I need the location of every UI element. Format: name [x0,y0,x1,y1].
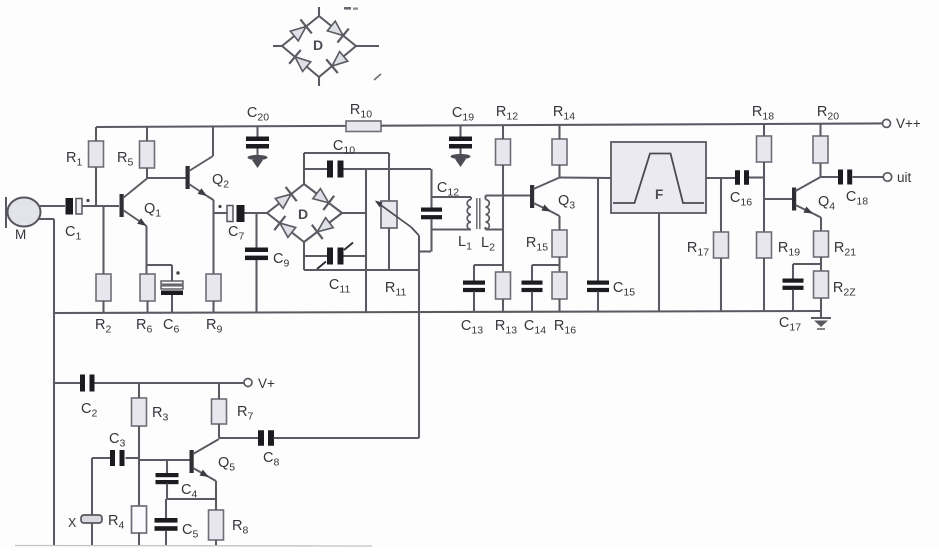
capacitor C15 [587,281,609,293]
capacitor C3 [110,450,125,466]
wire (C6 bottom lead) [171,295,173,313]
diode bridge D diode (top-left) [274,187,297,211]
wire (emitter node to C7) [214,212,228,214]
wire (mic lower lead) [38,218,54,220]
wire (Q2 collector to rail) [212,126,214,156]
wire (Q3 collector) [534,178,560,190]
transistor Q4 [792,188,796,211]
capacitor C2 [80,375,95,392]
wire (C5 top lead) [165,499,167,518]
resistor R15 [552,230,567,257]
capacitor C8 [258,430,274,446]
label L1 [458,234,472,253]
capacitor C19 [449,137,472,149]
wire (V++ rail, left of R10) [96,126,346,127]
wire (R1 bottom lead) [95,167,97,206]
label C10 [333,138,355,157]
wire (C17 bottom lead) [792,290,794,312]
wire (bridge top rail to R11) [304,152,389,154]
ground (C20) [248,149,268,169]
label C2 [81,401,97,420]
capacitor C5 [155,518,178,531]
wire (right vertex to x366) [342,212,366,214]
transistor Q3 [530,185,534,208]
label uit [897,170,912,185]
label R22 [833,280,856,299]
wire (tank bottom lead) [432,228,472,230]
wire (R6/C6 link) [148,265,173,281]
wire (R11 bottom lead) [388,228,390,270]
filter block F [611,142,706,213]
label V++ [896,116,921,131]
wire (C12 bottom jog) [419,250,431,252]
label R14 [553,104,575,123]
wire (C18 to uit) [853,176,884,178]
label C15 [613,280,635,299]
svg-text:D: D [298,206,308,222]
wire (C20 top lead) [256,126,258,136]
wire (R8 bottom lead) [215,540,217,546]
wire (C1 to Q1 base) [82,205,119,207]
label R9 [206,317,222,336]
wire (top bridge left lead) [273,45,282,47]
label C11 [329,277,351,296]
wire (C12 bottom lead) [430,219,432,252]
label R19 [778,240,800,259]
label R17 [687,240,709,259]
wire (top bridge bottom lead) [318,77,320,86]
wire (C19 top lead) [459,125,461,136]
resistor R12 [496,139,511,165]
wire (Q3 collector line to F) [560,176,612,179]
label C5 [182,522,198,541]
emitter arrow Q1 [123,210,147,226]
capacitor C9 [245,248,268,261]
wire (R19 bottom lead) [763,258,765,311]
diode bridge D diode (bottom-right) [312,215,335,239]
label Q4 [818,194,835,213]
wire (V++ rail, right of R10) [381,123,882,125]
label R3 [152,405,168,424]
wire (R2 top lead) [102,206,104,274]
label R18 [752,104,774,123]
diode bridge D2 label [313,37,323,53]
wire (C15 top lead) [597,178,599,281]
wire (faint bottom edge) [15,545,372,548]
wire (R18-R19 column) [763,162,765,232]
resistor R1 [89,141,104,167]
emitter arrow Q2 [189,184,207,196]
capacitor C6 (electrolytic) [161,271,183,295]
wire (bridge bottom line) [304,269,419,271]
label Q2 [212,172,229,191]
wire (C13 top jog) [474,265,503,281]
wire (ground rail) [54,311,821,313]
svg-text:V+: V+ [258,376,275,391]
resistor R11 (adjustable) [381,201,397,228]
label R4 [108,513,124,532]
wire (R4 bottom lead) [138,533,140,546]
wire (bridge top stub) [303,153,305,184]
resistor R6 [140,274,155,301]
resistor R5 [140,141,155,168]
wire (base line to Q5) [139,459,190,461]
wire (bridge bottom stub) [303,242,305,270]
wire (Q5 emitter down) [209,477,216,510]
wire (L2 top to Q3 base) [486,196,531,200]
wire (C9 bottom lead) [255,260,257,312]
label R15 [526,235,548,254]
wire (C9 top lead) [255,213,257,248]
wire (R3 bottom lead) [138,426,140,506]
wire (R6 bottom lead) [146,301,148,313]
microphone M [6,197,41,228]
wire (C17 jog) [793,264,821,279]
label R1 [66,150,82,169]
svg-text:D: D [313,37,323,53]
label Q3 [558,193,575,212]
label V+ [258,376,275,391]
wire (C14 bottom lead) [531,292,533,312]
diode bridge D label [298,206,308,222]
wire (R21-R22 link) [820,257,822,271]
wire (R11 top lead) [388,153,390,201]
capacitor C20 [246,137,269,149]
wire (R5 top lead) [146,127,148,141]
svg-text:F: F [655,187,663,202]
svg-text:uit: uit [897,170,912,185]
label C18 [846,189,868,208]
resistor R19 [757,232,772,258]
wire (R17 bottom lead) [720,258,722,311]
emitter arrow Q4 [796,205,814,214]
resistor R20 [813,136,828,163]
wire (Q2 collector) [189,156,213,171]
svg-text:V++: V++ [896,116,921,131]
capacitor C11 (trimmer) [317,243,353,270]
capacitor C1 [66,198,90,215]
diode bridge D diode (bottom-left) [274,216,297,240]
label R8 [232,518,248,537]
inductor L1 [467,200,471,230]
wire (Q4 emitter to R21) [813,214,821,232]
label C8 [263,450,279,469]
label C12 [437,180,459,199]
wire (R12 top lead) [502,125,504,139]
transistor Q5 [190,450,194,473]
wire (Q1 collector) [123,179,147,199]
label C13 [461,318,483,337]
wire (C10 branch) [304,168,431,170]
wire (Q1 emitter to R6) [145,226,147,274]
resistor R9 [206,274,221,301]
ground [811,318,831,329]
wire (feedback column x419) [418,236,420,439]
diode bridge D2 diode (bottom-left) [289,50,312,74]
diode bridge D2 wire [282,16,356,77]
label R21 [834,240,856,259]
wire (collector node) [821,176,839,178]
label C9 [273,251,289,270]
diode bridge D diode (top-right) [311,186,334,210]
terminal V++ [883,119,891,127]
wire (Q1 collector to Q2 base) [147,177,186,179]
label Q5 [218,455,235,474]
wire (R20 bottom lead) [819,163,821,177]
label F [655,187,663,202]
wire (R20 top lead) [819,124,821,136]
crystal X [81,515,102,523]
diode bridge D2 diode (bottom-right) [326,49,349,73]
wire (R16 bottom lead) [558,299,560,312]
resistor R7 [212,399,227,424]
wire (L2 bottom lead) [486,227,504,230]
resistor R16 [552,272,567,299]
resistor R22 [814,271,829,298]
svg-text:X: X [68,516,77,530]
stray scan mark (top right) [344,7,358,10]
label C6 [163,317,179,336]
transistor Q2 [186,166,190,189]
wire (R12-R13 column) [502,165,504,272]
label R11 [385,280,407,299]
svg-text:M: M [15,227,26,242]
wire (R15-R16 column) [558,257,560,272]
resistor R2 [96,274,111,301]
inductor L2 [486,200,490,230]
diode bridge D2 diode (top-right) [326,19,349,43]
label C16 [730,190,752,209]
emitter arrow Q5 [193,468,209,477]
label C17 [779,315,801,334]
label R16 [554,318,576,337]
label C20 [247,105,269,124]
label R7 [237,404,253,423]
label C4 [181,482,197,501]
wire (left vertical bus) [53,219,55,546]
wire (Q5 collector) [193,439,219,454]
label R6 [136,317,152,336]
wire (Q4 collector) [796,177,821,191]
stray scan mark (right of bridge) [374,74,381,80]
wire (ground column x366) [365,169,367,312]
ground (C19) [451,149,471,168]
terminal uit [883,173,891,181]
label C19 [452,105,474,124]
transistor Q1 [120,194,124,217]
wire (C13 bottom lead) [473,292,475,312]
wire (C12 top lead) [430,169,432,208]
label C14 [524,318,546,337]
capacitor C13 [463,281,485,293]
wire (crystal column) [91,458,93,515]
wiper arrow R11 [375,201,419,236]
capacitor C17 [783,279,804,290]
wire (C3 branch) [92,457,140,459]
label R13 [495,318,517,337]
wire (R13 bottom lead) [502,299,504,312]
label R2 [95,317,111,336]
wire (Q3 emitter to R15) [551,212,560,231]
label Q1 [144,201,161,220]
diode bridge D wire [267,184,342,242]
transformer core [477,198,480,229]
wire (R14 top lead) [558,125,560,139]
wire (R17 column) [720,178,722,232]
label R20 [817,104,839,123]
label R10 [350,102,372,121]
label L2 [481,235,495,254]
capacitor C10 [327,161,344,178]
emitter arrow Q3 [534,203,552,212]
capacitor C14 [522,281,543,293]
label R12 [496,104,518,123]
capacitor C7 [218,205,244,222]
wire (top bridge right lead) [356,45,379,47]
wire (collector to C8) [219,437,258,439]
wire (R7 bottom lead) [218,424,220,438]
capacitor C12 [421,208,442,220]
wire (V+ line) [54,382,244,384]
wire (R1 top lead) [95,127,97,141]
wire (Q4 base) [764,198,792,200]
wire (C4/emitter link) [167,498,216,500]
resistor R18 [757,136,772,162]
resistor R3 [132,398,147,426]
wire (Q2 emitter down) [207,196,214,274]
wire (R14 bottom lead) [558,165,560,178]
label C7 [228,224,244,243]
resistor R17 [714,232,729,258]
resistor R10 [346,121,381,132]
capacitor C4 [156,473,179,484]
label C1 [65,224,81,243]
capacitor C16 [735,170,749,185]
resistor R13 [496,272,511,299]
label R5 [117,150,133,169]
wire (tank top lead) [432,197,472,200]
wire (R2 bottom lead) [102,301,104,313]
wire (R22 bottom lead) [820,298,822,318]
wire (F output) [706,177,735,179]
wire (C16 to base column) [749,176,764,178]
wire (top bridge top lead) [318,7,320,16]
terminal V+ [244,379,252,387]
label C3 [109,431,125,450]
wire (R7 top lead) [218,383,220,399]
resistor R4 [132,506,147,533]
wire (C5 bottom lead) [165,531,167,546]
filter response curve [613,154,704,204]
wire (C15 bottom lead) [597,292,599,312]
wire (R3 top lead) [138,383,140,398]
wire (C8 feedback line) [274,437,420,439]
label X [68,516,77,530]
wire (crystal bottom lead) [91,523,93,546]
wire (C4 top lead) [166,460,168,473]
wire (mic to C1) [40,205,65,207]
wire (F bottom lead) [658,213,660,311]
wire (C4 bottom lead) [166,484,168,500]
label M [15,227,26,242]
wire (R5 bottom lead) [146,168,148,178]
resistor R8 [209,510,224,540]
wire (C14 top jog) [532,265,560,281]
resistor R21 [814,231,829,257]
resistor R14 [552,139,567,165]
wire (C7 to bridge) [245,212,268,214]
capacitor C18 [838,170,852,185]
wire (R9 bottom lead) [212,301,214,313]
diode bridge D2 diode (top-left) [289,19,312,43]
wire (C11 branch) [304,255,366,257]
wire (R18 top lead) [763,124,765,136]
